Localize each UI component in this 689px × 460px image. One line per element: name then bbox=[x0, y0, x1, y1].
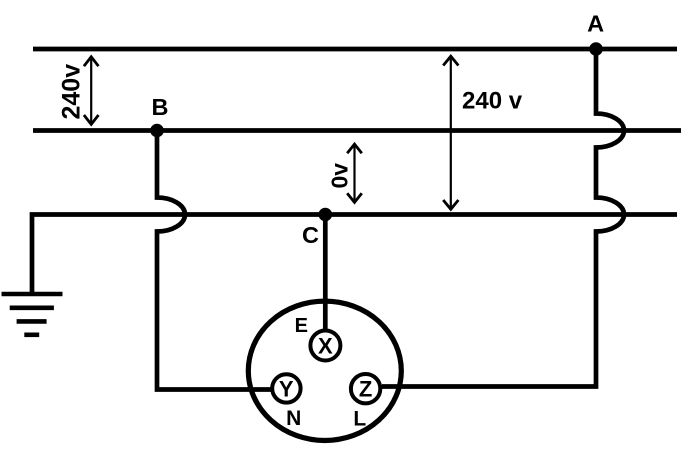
node C bbox=[319, 208, 333, 222]
wire line 3 (0v neutral, node C line) with corner to ground bbox=[32, 215, 677, 295]
svg-text:Z: Z bbox=[359, 377, 372, 402]
dimension arrow 240 v (middle, line1 to line3) bbox=[443, 56, 458, 209]
node A bbox=[589, 42, 603, 56]
wire line 1 (240v live, node A line) bbox=[33, 47, 677, 52]
svg-text:240 v: 240 v bbox=[462, 87, 523, 114]
node B bbox=[150, 124, 164, 138]
pin Z circle bbox=[351, 374, 380, 403]
svg-text:0v: 0v bbox=[326, 163, 352, 189]
svg-text:X: X bbox=[318, 334, 333, 359]
pin X circle bbox=[310, 331, 340, 361]
dimension arrow 240v (left, line1 to line2) bbox=[84, 57, 99, 125]
pin Y circle bbox=[272, 374, 300, 402]
plug socket outline bbox=[248, 301, 401, 440]
wire branch from C down to pin X bbox=[323, 215, 328, 332]
svg-text:N: N bbox=[286, 407, 301, 430]
svg-text:A: A bbox=[587, 10, 604, 36]
svg-text:B: B bbox=[152, 94, 169, 120]
dimension arrow 0v (line2 to line3) bbox=[347, 144, 362, 202]
wire branch from B down to Y (with crossover hop) bbox=[157, 131, 271, 390]
svg-text:L: L bbox=[353, 408, 366, 431]
svg-text:240v: 240v bbox=[57, 64, 85, 120]
svg-text:C: C bbox=[302, 222, 319, 248]
svg-text:Y: Y bbox=[279, 376, 294, 401]
svg-text:E: E bbox=[295, 315, 308, 337]
wire branch from A down to Z (with crossover hops) bbox=[382, 49, 624, 387]
wire line 2 (node B line) bbox=[33, 128, 681, 133]
ground bbox=[2, 294, 63, 335]
